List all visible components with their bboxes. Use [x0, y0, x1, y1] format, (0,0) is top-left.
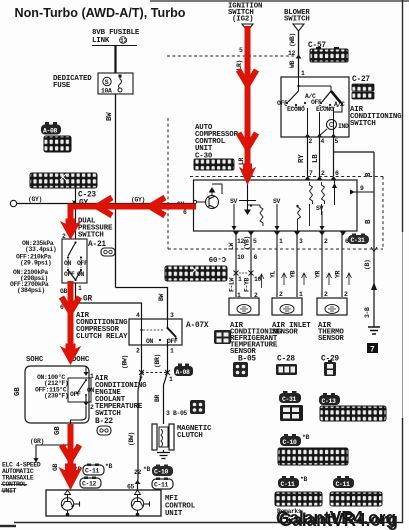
- red arrow coolant switch to MFI: [68, 424, 74, 470]
- wire BR to magnetic clutch: [154, 373, 187, 420]
- dual pressure switch box: [62, 239, 88, 283]
- SV driver 3: [316, 205, 325, 231]
- svg-text:SENSOR: SENSOR: [318, 335, 344, 343]
- svg-text:CLUTCH RELAY: CLUTCH RELAY: [76, 333, 128, 341]
- sensor2 label: [272, 322, 311, 364]
- svg-text:2: 2: [324, 291, 328, 298]
- MFI left pin labels: [65, 463, 112, 488]
- sensor2 air inlet sensor box: [272, 298, 302, 315]
- svg-text:5: 5: [239, 47, 243, 54]
- svg-text:A-08: A-08: [176, 369, 190, 376]
- svg-text:OFF: OFF: [311, 99, 322, 106]
- wire BW from fuse down: [106, 94, 116, 288]
- wire BW relay pin2 down: [122, 345, 145, 383]
- connector A-21 icon: [101, 248, 115, 256]
- red arrow corner down into pressure switch: [68, 204, 74, 227]
- svg-text:C-09: C-09: [209, 254, 226, 262]
- svg-text:ON: ON: [64, 260, 71, 267]
- control unit interior transistor: [193, 184, 222, 209]
- svg-text:LINK: LINK: [92, 37, 110, 45]
- control unit top pins: [245, 170, 340, 180]
- pressure thresholds text: [10, 240, 56, 294]
- svg-text:B-22: B-22: [95, 418, 113, 426]
- svg-text:GR: GR: [83, 296, 92, 304]
- connector C-10 grid: [278, 448, 348, 465]
- title: [15, 6, 186, 20]
- connector icon B-05 clutch: [190, 400, 205, 414]
- svg-text:*B: *B: [300, 476, 307, 483]
- relay box A-07X: [129, 312, 182, 355]
- svg-text:BR: BR: [154, 395, 161, 402]
- air conditioning switch label: [350, 106, 402, 128]
- red arrow horizontal to left: [70, 204, 196, 210]
- svg-text:C-31: C-31: [282, 396, 296, 403]
- sensor2 connector icon C-28: [276, 364, 297, 375]
- svg-text:C-11: C-11: [336, 481, 350, 488]
- svg-text:GB: GB: [52, 464, 59, 471]
- coolant temp switch box: [25, 366, 94, 423]
- svg-text:2: 2: [344, 291, 348, 298]
- svg-text:*B: *B: [105, 463, 112, 470]
- MFI transistor 2: [131, 495, 149, 516]
- svg-text:1: 1: [279, 238, 283, 245]
- connector C-30 block: [194, 159, 234, 170]
- svg-text:(GY): (GY): [131, 197, 145, 204]
- svg-text:SOHC: SOHC: [26, 356, 44, 364]
- wire LR ignition down to control unit: [236, 31, 251, 180]
- connector C-11 tag right: [333, 476, 354, 488]
- magnetic clutch: [152, 419, 174, 459]
- wire BW down to MFI right pin: [127, 373, 142, 491]
- svg-text:C-10: C-10: [283, 439, 297, 446]
- svg-text:YR: YR: [335, 271, 342, 278]
- svg-text:ON: ON: [77, 271, 84, 278]
- svg-text:IND: IND: [338, 123, 349, 130]
- SV driver 1: [230, 198, 237, 231]
- resistor R4 interior: [296, 205, 300, 231]
- svg-text:YL: YL: [270, 271, 277, 278]
- svg-text:1: 1: [299, 291, 303, 298]
- connector block under A-08: [44, 136, 71, 152]
- svg-text:ECONO: ECONO: [287, 106, 305, 113]
- wire pin5 branch to B: [334, 137, 375, 176]
- connector C-11 tag left: [278, 476, 307, 488]
- svg-text:ECONO: ECONO: [316, 106, 334, 113]
- svg-text:C-13: C-13: [322, 398, 336, 405]
- red arrow segment ignition down: [245, 26, 251, 176]
- connector C-57: [308, 42, 348, 62]
- control unit dashed outline: [168, 118, 383, 249]
- connector C-09 label: [209, 254, 226, 262]
- connector C-31 grid: [280, 405, 303, 421]
- terminal circle left: [10, 200, 16, 206]
- svg-text:1: 1: [301, 70, 305, 77]
- connector C-31 tag: [279, 391, 301, 403]
- svg-text:3: 3: [299, 238, 303, 245]
- connector C-13 tag: [319, 393, 340, 405]
- svg-text:C-11: C-11: [154, 482, 168, 489]
- wire GR horizontal to relay pin4: [60, 296, 142, 320]
- ignition feed triangle: [242, 24, 253, 31]
- dedicated fuse label: [53, 75, 92, 90]
- svg-text:1: 1: [170, 348, 174, 355]
- interior arrow pin6: [332, 180, 337, 205]
- sensor3 label: [318, 322, 344, 364]
- SV driver 2: [273, 198, 280, 231]
- connector A-08 icon top: [41, 122, 61, 135]
- C-23 label: [78, 192, 96, 208]
- svg-text:10A: 10A: [101, 88, 112, 95]
- resistor R1 interior: [248, 204, 264, 226]
- svg-text:UNIT: UNIT: [165, 510, 183, 518]
- svg-text:GB: GB: [14, 387, 22, 396]
- svg-text:SENSOR: SENSOR: [272, 329, 298, 337]
- wire YR sensor3 right: [335, 232, 352, 298]
- svg-text:2: 2: [279, 291, 283, 298]
- wire LB: [312, 137, 320, 176]
- MFI control unit box: [46, 490, 161, 516]
- svg-text:C-11: C-11: [281, 481, 295, 488]
- wire GY horizontal: [17, 196, 193, 216]
- svg-text:C-23: C-23: [78, 192, 96, 200]
- svg-text:Non-Turbo (AWD-A/T), Turbo: Non-Turbo (AWD-A/T), Turbo: [15, 6, 186, 20]
- ignition switch label: [228, 3, 262, 24]
- svg-text:OFF: OFF: [64, 271, 75, 278]
- svg-text:SWITCH: SWITCH: [284, 16, 310, 24]
- svg-text:C-11: C-11: [85, 468, 99, 475]
- svg-text:OFF: OFF: [70, 391, 81, 398]
- wire YB / F-YB sensor1 right: [239, 232, 264, 299]
- wire YB sensor2 right: [290, 232, 307, 298]
- wire fusible link to fuse: [114, 46, 116, 73]
- page number 7 square: [367, 343, 378, 355]
- dedicated fuse box: [98, 73, 133, 95]
- coolant switch thresholds: [35, 373, 68, 400]
- A/C switch bottom pins: [305, 134, 339, 146]
- wire GR pressure switch down: [60, 283, 82, 303]
- svg-text:A-07X: A-07X: [186, 322, 209, 330]
- svg-text:(IG2): (IG2): [232, 16, 253, 24]
- svg-text:SWITCH: SWITCH: [95, 410, 121, 418]
- svg-text:2: 2: [309, 138, 313, 145]
- svg-text:SWITCH: SWITCH: [78, 232, 104, 240]
- A/C compressor clutch relay label: [76, 312, 128, 341]
- pin 9 wire to B: [350, 185, 374, 195]
- svg-text:C-28: C-28: [277, 356, 295, 364]
- svg-text:4: 4: [136, 312, 140, 319]
- svg-text:GB: GB: [54, 426, 62, 435]
- red highlight arrows: [60, 26, 257, 489]
- svg-text:6: 6: [335, 170, 339, 177]
- svg-text:2: 2: [136, 348, 140, 355]
- dashed link A-08: [142, 372, 168, 374]
- connector C-13 grid: [320, 406, 386, 421]
- svg-text:SWITCH: SWITCH: [350, 120, 376, 128]
- svg-text:CLUTCH: CLUTCH: [177, 432, 203, 440]
- connector A-08 icon lower: [174, 364, 193, 377]
- svg-text:F-YB: F-YB: [244, 278, 251, 292]
- svg-text:B: B: [365, 219, 373, 224]
- svg-text:2: 2: [90, 404, 94, 411]
- svg-text:OFF: OFF: [77, 260, 88, 267]
- svg-text:6: 6: [183, 209, 187, 216]
- MFI right pin labels: [134, 465, 173, 490]
- wire LW / F-LV sensor1 left: [228, 232, 244, 299]
- svg-text:SV: SV: [316, 205, 323, 212]
- red arrow pressure switch to coolant switch: [68, 281, 74, 350]
- wire BR relay pin1 down: [154, 345, 173, 383]
- svg-text:3-B: 3-B: [364, 307, 371, 318]
- page border bottom: [0, 523, 403, 527]
- svg-text:9: 9: [360, 185, 364, 192]
- control unit bottom pins: [233, 232, 349, 246]
- svg-text:LW: LW: [228, 243, 235, 250]
- svg-text:*B: *B: [302, 434, 309, 441]
- resistor R2 interior: [310, 182, 313, 226]
- svg-text:10: 10: [237, 254, 244, 261]
- svg-text:2: 2: [324, 238, 328, 245]
- connector C-11 grid left: [275, 492, 322, 506]
- svg-text:2: 2: [321, 170, 325, 177]
- svg-text:WB: WB: [289, 61, 296, 68]
- svg-text:C-27: C-27: [352, 76, 370, 84]
- wire RY: [298, 137, 308, 176]
- connector B-22 icon: [97, 426, 111, 435]
- svg-text:*B: *B: [143, 466, 150, 473]
- svg-text:(GY): (GY): [28, 196, 42, 203]
- svg-text:(33.4psi): (33.4psi): [25, 246, 56, 253]
- svg-text:C-31: C-31: [351, 237, 365, 244]
- ELC label: [1, 462, 41, 495]
- svg-text:7: 7: [309, 170, 313, 177]
- svg-text:(BW): (BW): [128, 432, 135, 446]
- svg-text:(GR): (GR): [30, 438, 44, 445]
- svg-text:A/C: A/C: [334, 101, 345, 108]
- magnetic clutch label: [177, 425, 212, 440]
- wire GR branch to ELC: [30, 438, 71, 463]
- resistor R3 interior: [322, 182, 325, 215]
- svg-text:GB: GB: [60, 288, 67, 295]
- svg-text:SV: SV: [230, 198, 237, 205]
- svg-text:1: 1: [238, 276, 242, 283]
- svg-text:FUSE: FUSE: [53, 82, 71, 90]
- dashed bus line top: [167, 55, 296, 57]
- svg-text:ON: ON: [146, 338, 153, 345]
- svg-text:ON: ON: [87, 387, 94, 394]
- page border right: [150, 0, 409, 523]
- sensor1 connector icon B-05: [233, 362, 248, 377]
- relay label A-07X: [186, 322, 231, 344]
- wire B down right side: [364, 152, 377, 327]
- svg-text:C-12: C-12: [82, 481, 96, 488]
- coolant switch label: [95, 375, 147, 426]
- svg-text:YR: YR: [315, 271, 322, 278]
- GB label left of box: [14, 387, 22, 396]
- fusible link label: [92, 29, 140, 46]
- wire BW horizontal to relay pin3: [116, 288, 168, 320]
- svg-text:(384psi): (384psi): [17, 287, 45, 294]
- connector C-09 block: [165, 266, 227, 281]
- svg-text:S: S: [105, 79, 109, 86]
- svg-text:(YB): (YB): [244, 236, 251, 250]
- svg-text:F-LW: F-LW: [229, 278, 236, 292]
- svg-text:C-10: C-10: [154, 469, 168, 476]
- svg-text:(BW): (BW): [122, 355, 129, 369]
- svg-text:7: 7: [370, 347, 375, 355]
- connector C-10 tag: [280, 434, 309, 446]
- wire GY from C-23 down to pressure switch: [62, 188, 76, 240]
- svg-text:BW: BW: [158, 294, 165, 301]
- svg-text:(BR): (BR): [154, 354, 161, 368]
- MFI label: [165, 495, 196, 518]
- wire YL sensor2 left: [270, 232, 287, 298]
- sensor1 label: [230, 322, 282, 364]
- sensor1 refrigerant temperature sensor box: [229, 298, 259, 315]
- svg-text:4: 4: [321, 138, 325, 145]
- control unit interior common bar: [239, 183, 256, 214]
- A/C switch box: [277, 77, 349, 137]
- remarks text: [277, 508, 302, 521]
- svg-text:RY: RY: [298, 154, 306, 163]
- blower switch label: [284, 9, 310, 24]
- svg-text:5: 5: [335, 138, 339, 145]
- svg-text:SV: SV: [273, 198, 280, 205]
- svg-text:5: 5: [253, 238, 257, 245]
- svg-text:22: 22: [134, 469, 141, 476]
- dual pressure switch label: [78, 218, 113, 250]
- svg-text:GalantVR4.org: GalantVR4.org: [279, 510, 398, 530]
- svg-text:OFF: OFF: [167, 338, 178, 345]
- svg-text:6: 6: [254, 254, 258, 261]
- svg-text:A-08: A-08: [43, 128, 57, 135]
- wire WB blower to A/C switch: [288, 31, 305, 77]
- SOHC DOHC labels: [26, 356, 90, 364]
- svg-text:LB: LB: [312, 154, 320, 163]
- svg-text:3: 3: [170, 312, 174, 319]
- control unit solid inner box: [194, 180, 358, 231]
- connector C-27: [352, 76, 374, 99]
- ground for B wire: [364, 307, 380, 334]
- svg-text:(B): (B): [364, 260, 371, 270]
- svg-text:13: 13: [120, 38, 127, 45]
- wire YR sensor3 left: [315, 232, 332, 298]
- svg-text:(WB): (WB): [289, 33, 296, 47]
- svg-text:BW: BW: [106, 112, 114, 121]
- connector C-23 block: [30, 173, 97, 188]
- wire GB below coolant switch: [52, 423, 71, 490]
- svg-text:1: 1: [78, 285, 82, 292]
- sensor3 air thermo sensor box: [317, 298, 347, 315]
- svg-text:YB: YB: [290, 271, 297, 278]
- svg-text:8VB FUSIBLE: 8VB FUSIBLE: [92, 29, 140, 37]
- svg-text:(29.9psi): (29.9psi): [20, 260, 51, 267]
- svg-text:3 B-05: 3 B-05: [166, 410, 187, 417]
- connector C-11 grid right: [330, 492, 382, 506]
- svg-text:(239°F): (239°F): [44, 392, 68, 400]
- MFI transistor 1: [61, 495, 79, 516]
- auto compressor control unit label: [195, 124, 239, 161]
- connector C-31 inline tag: [348, 234, 369, 245]
- blower feed triangle: [293, 24, 304, 31]
- watermark: [276, 508, 398, 530]
- sensor3 connector icon C-29: [324, 360, 336, 376]
- svg-text:1: 1: [169, 376, 173, 383]
